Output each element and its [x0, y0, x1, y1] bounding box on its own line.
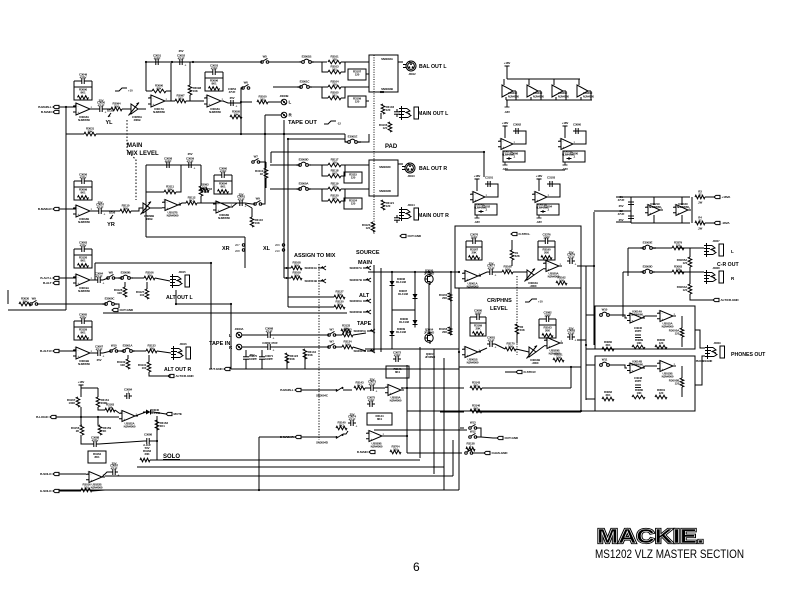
svg-text:MAIN OUT L: MAIN OUT L	[418, 111, 449, 117]
dotted connector line	[373, 55, 375, 235]
power -18V	[536, 215, 542, 224]
resistor R3107 block	[348, 69, 366, 80]
svg-text:120: 120	[659, 391, 664, 395]
wire	[341, 62, 345, 72]
resistor R3141 block	[386, 366, 409, 378]
label MAIN OUT L	[418, 111, 449, 117]
capacitor cap C3060	[573, 122, 582, 134]
label R3144	[375, 414, 384, 421]
svg-text:-18V: -18V	[474, 220, 480, 224]
svg-text:SN3005B: SN3005B	[353, 349, 366, 353]
wire	[241, 88, 243, 103]
wire	[65, 304, 67, 310]
wire	[335, 334, 342, 336]
capacitor C3053	[205, 63, 223, 78]
wire	[586, 314, 595, 316]
wire	[104, 210, 120, 212]
svg-text:J3010B: J3010B	[280, 94, 289, 98]
svg-text:47UF: 47UF	[111, 466, 118, 470]
wire	[495, 344, 505, 349]
op-amp U3015B	[657, 361, 676, 379]
resistor R3062	[602, 390, 614, 401]
svg-text:+: +	[272, 336, 274, 340]
capacitor C3076	[466, 232, 482, 247]
wire	[146, 282, 148, 289]
label 25V	[250, 353, 255, 357]
junction	[593, 265, 595, 267]
terminal B-MAIN	[41, 110, 59, 114]
svg-text:-: -	[537, 192, 538, 196]
wire	[628, 247, 644, 249]
svg-text:MAIN OUT R: MAIN OUT R	[418, 213, 449, 219]
label SN3003C	[379, 165, 392, 169]
power -18V	[504, 107, 510, 114]
jumper E3000Db	[641, 264, 656, 274]
resistor R3065A	[677, 257, 692, 267]
svg-text:47PF: 47PF	[368, 398, 375, 402]
svg-text:+: +	[574, 262, 576, 266]
wire matrix main bus	[368, 271, 459, 273]
resistor R3165s	[140, 458, 150, 462]
switch W12	[469, 430, 477, 439]
resistor R3090	[74, 87, 92, 100]
junction	[406, 387, 408, 389]
svg-text:+: +	[103, 212, 105, 216]
connector J3010A R	[236, 344, 242, 350]
wire	[690, 294, 713, 300]
svg-text:30PF: 30PF	[471, 235, 478, 239]
label 25V	[98, 200, 103, 204]
svg-text:E3000A: E3000A	[299, 181, 310, 185]
capacitor C3074	[348, 414, 357, 428]
terminal 208	[235, 249, 245, 253]
capacitor C3058	[164, 156, 173, 168]
svg-text:C3103: C3103	[547, 175, 556, 179]
svg-text:2K1: 2K1	[605, 393, 610, 397]
wire	[341, 164, 369, 166]
capacitor C3066	[503, 151, 525, 162]
vertical wire	[585, 266, 587, 400]
resistor R4	[695, 215, 705, 224]
potentiometer pot YR	[107, 211, 115, 229]
wire	[506, 100, 508, 107]
wire	[245, 203, 255, 204]
svg-text:+: +	[371, 437, 373, 441]
wire	[236, 102, 241, 104]
wire	[398, 163, 403, 165]
resistor R3120	[328, 193, 341, 202]
svg-text:47PV: 47PV	[80, 75, 87, 79]
switch SN3006A	[349, 299, 371, 303]
wire bus	[126, 133, 265, 135]
wire	[516, 334, 518, 343]
vertical wire	[622, 272, 624, 317]
svg-text:100PF: 100PF	[265, 357, 273, 361]
wire cr out L	[577, 265, 594, 267]
resistor R3101	[328, 54, 341, 63]
wire	[259, 436, 295, 438]
capacitor C3057	[96, 202, 105, 216]
label 25V	[239, 192, 244, 196]
capacitor C3054	[228, 100, 237, 108]
terminal +18VA	[714, 195, 731, 199]
junction	[585, 344, 587, 346]
svg-text:8K1: 8K1	[395, 370, 400, 374]
resistor R3094	[111, 101, 122, 110]
svg-text:+: +	[78, 212, 80, 216]
wire	[642, 316, 657, 318]
wire	[287, 354, 305, 369]
svg-text:+: +	[355, 424, 357, 428]
terminal B-MAIN-R	[38, 207, 59, 211]
wire	[678, 247, 704, 249]
svg-text:25V: 25V	[188, 152, 193, 156]
svg-text:120: 120	[675, 382, 680, 386]
wire	[642, 366, 657, 368]
bus vertical	[287, 139, 289, 307]
svg-text:TAPE: TAPE	[357, 321, 372, 327]
op-amp U3022B	[86, 472, 105, 490]
svg-text:+: +	[218, 208, 220, 212]
wire	[511, 260, 513, 266]
svg-text:C-R OUT: C-R OUT	[717, 262, 739, 268]
resistor R3103	[328, 64, 341, 73]
capacitor C3060	[214, 166, 232, 181]
wire	[284, 267, 291, 269]
terminal B-ALT-R	[40, 349, 59, 353]
svg-text:LEVEL: LEVEL	[490, 306, 508, 312]
svg-text:ALT OUT L: ALT OUT L	[166, 295, 194, 301]
label C3069	[262, 341, 278, 345]
diode D3039	[390, 327, 407, 339]
power -18V	[562, 162, 568, 171]
svg-text:SN3003C: SN3003C	[379, 165, 392, 169]
svg-text:47UF: 47UF	[96, 347, 103, 351]
svg-text:25V: 25V	[239, 192, 244, 196]
svg-text:10PF: 10PF	[543, 235, 550, 239]
label CR/PHNS	[487, 298, 512, 304]
svg-text:OUT-GND: OUT-GND	[120, 308, 134, 312]
vertical	[443, 358, 445, 490]
wire	[90, 108, 97, 110]
label MS1202 VLZ MASTER SECTION	[595, 547, 744, 561]
svg-text:-: -	[475, 192, 476, 196]
svg-text:100PF: 100PF	[249, 357, 257, 361]
svg-text:+: +	[475, 198, 477, 202]
terminal OUT-GND a	[400, 234, 422, 238]
svg-text:-18V: -18V	[502, 167, 508, 171]
svg-text:NJM4560: NJM4560	[533, 95, 545, 99]
wire	[586, 348, 595, 350]
jack jack J3016	[171, 342, 191, 360]
resistor R3063	[672, 264, 684, 273]
vertical wire	[240, 103, 242, 134]
wire	[695, 356, 705, 385]
svg-text:120: 120	[332, 82, 337, 86]
resistor R3060	[602, 340, 614, 351]
svg-text:100: 100	[140, 293, 145, 297]
junction	[258, 489, 260, 491]
resistor R3160	[439, 293, 452, 301]
connector XLR J3012	[403, 61, 416, 76]
svg-text:-: -	[209, 96, 210, 100]
wire	[653, 197, 655, 205]
terminal ALT/CR-GND	[713, 298, 739, 302]
wire	[59, 350, 76, 352]
svg-text:-3000: -3000	[532, 361, 539, 365]
phones driver block	[595, 356, 695, 411]
svg-text:OUT-GND: OUT-GND	[505, 436, 519, 440]
wire matrix bottom bus	[365, 348, 459, 350]
junction	[458, 351, 460, 353]
svg-text:561: 561	[178, 96, 183, 100]
wire	[59, 277, 76, 279]
switch SN3005A	[353, 329, 375, 333]
svg-text:-: -	[218, 202, 219, 206]
svg-text:120: 120	[676, 267, 681, 271]
wire	[262, 358, 287, 369]
resistor R3000A	[669, 328, 684, 337]
wire	[341, 87, 345, 98]
svg-text:-: -	[548, 261, 549, 265]
svg-text:SN3006B: SN3006B	[349, 310, 362, 314]
switch W15	[328, 340, 336, 349]
svg-text:W8: W8	[109, 271, 114, 275]
terminal G-SOLO	[40, 489, 59, 493]
terminal D-STR-R	[516, 370, 536, 374]
svg-text:+: +	[124, 417, 126, 421]
svg-text:+: +	[503, 145, 505, 149]
svg-text:J3012: J3012	[409, 72, 417, 76]
label 25V c3083	[569, 326, 574, 330]
junction	[264, 133, 266, 135]
wire	[586, 398, 595, 400]
svg-text:8K1: 8K1	[189, 198, 194, 202]
svg-text:ASSIGN TO MIX: ASSIGN TO MIX	[294, 253, 336, 259]
junction	[156, 440, 158, 442]
svg-text:J3009: J3009	[714, 341, 722, 345]
wire	[273, 86, 301, 88]
power +18V solo	[78, 380, 85, 388]
svg-text:120: 120	[683, 288, 688, 292]
resistor R3163s	[105, 402, 115, 411]
capacitor C3048	[634, 376, 643, 388]
wire	[609, 315, 627, 318]
wire	[392, 309, 415, 311]
svg-text:40K: 40K	[520, 328, 526, 332]
svg-text:SN3005A: SN3005A	[353, 329, 366, 333]
wire	[155, 278, 170, 281]
terminal -18VA	[714, 221, 730, 225]
label BAL OUT L	[419, 64, 447, 70]
op-amp U3023D	[577, 79, 595, 100]
svg-text:DL4148: DL4148	[399, 320, 409, 324]
svg-text:25V: 25V	[350, 412, 355, 416]
svg-text:+: +	[390, 391, 392, 395]
long bus wire	[59, 489, 459, 491]
resistor R3096	[205, 78, 223, 91]
label R3107	[353, 70, 362, 77]
svg-text:E3000D: E3000D	[299, 157, 309, 161]
svg-text:8K1: 8K1	[80, 91, 85, 95]
svg-text:+18V: +18V	[78, 380, 85, 384]
capacitor C3063	[74, 240, 92, 255]
switch SN3004C	[301, 387, 352, 398]
switch W14	[328, 328, 336, 337]
resistor R3144 block	[367, 413, 392, 425]
svg-text:NJM4560: NJM4560	[78, 118, 90, 122]
wire top L bus	[146, 62, 262, 91]
svg-text:NJM4560: NJM4560	[91, 485, 103, 489]
wire	[245, 204, 252, 208]
svg-text:25V: 25V	[179, 49, 184, 53]
capacitor C1	[618, 195, 634, 208]
junction	[382, 91, 384, 93]
svg-text:+: +	[78, 110, 80, 114]
wire	[366, 73, 369, 75]
wire	[152, 440, 157, 442]
svg-text:-: -	[78, 348, 79, 352]
wire	[241, 101, 252, 103]
svg-text:+: +	[78, 281, 80, 285]
svg-text:120: 120	[332, 184, 337, 188]
op-amp U3001A	[462, 271, 481, 289]
switch contacts assign rows	[286, 267, 288, 279]
resistor R3109 block	[348, 96, 366, 107]
jack jack J3007	[704, 239, 724, 257]
wire	[322, 87, 328, 98]
svg-text:120: 120	[366, 226, 371, 230]
vertical wire	[145, 165, 147, 237]
junction	[458, 271, 460, 273]
wire	[384, 435, 407, 437]
op-amp U3017A	[148, 95, 168, 114]
svg-text:+: +	[678, 211, 680, 215]
wire	[366, 100, 369, 102]
power +18V U3000C	[474, 174, 481, 182]
svg-text:DL4148: DL4148	[398, 292, 408, 296]
svg-text:NJM4560: NJM4560	[677, 205, 689, 209]
capacitor C3079	[567, 252, 576, 266]
svg-text:8K1: 8K1	[339, 423, 344, 427]
label C3054	[228, 87, 237, 100]
wire	[80, 407, 82, 417]
resistor R3094	[214, 181, 232, 194]
svg-text:MUTE: MUTE	[174, 412, 182, 416]
wire	[341, 165, 345, 176]
resistor R3000B	[669, 378, 684, 387]
op-amp U3014A	[627, 310, 645, 324]
label ALT OUT L	[166, 295, 194, 301]
svg-text:+18V: +18V	[504, 61, 511, 65]
svg-text:L: L	[289, 100, 292, 105]
connector SN3003 block	[369, 55, 398, 92]
resistor R3111	[164, 184, 176, 193]
wire headphone supply bottom rail	[631, 222, 690, 224]
svg-text:-: -	[390, 385, 391, 389]
label 25V	[370, 377, 375, 381]
svg-text:10PF: 10PF	[544, 313, 551, 317]
svg-text:120: 120	[332, 57, 337, 61]
wire	[96, 133, 126, 135]
resistor R3095	[230, 109, 242, 118]
wire	[66, 107, 84, 134]
wire	[580, 367, 582, 411]
terminal B-SOLO	[40, 472, 59, 476]
svg-text:PAD: PAD	[385, 144, 398, 150]
resistor R3110c	[255, 168, 268, 178]
resistor R3089	[632, 338, 645, 349]
svg-text:+: +	[632, 369, 634, 373]
wire	[534, 269, 543, 275]
svg-text:W11: W11	[602, 357, 608, 361]
logo MACKIE	[597, 525, 704, 548]
svg-text:120: 120	[386, 108, 391, 112]
svg-text:.2W: .2W	[698, 227, 703, 231]
wire top R bus	[146, 164, 201, 166]
wire headphone supply top rail	[631, 196, 690, 198]
label XR	[222, 246, 230, 252]
svg-text:-: -	[662, 361, 663, 365]
wire	[59, 490, 81, 492]
wire	[678, 271, 704, 273]
long wire gnd bus	[103, 312, 347, 314]
svg-text:209: 209	[275, 243, 280, 247]
vertical	[419, 347, 421, 458]
svg-text:+: +	[209, 102, 211, 106]
capacitor C3056	[74, 172, 92, 187]
switch W5	[261, 55, 269, 64]
wire	[122, 108, 131, 110]
capacitor C3061	[237, 194, 246, 208]
svg-text:SN3003A: SN3003A	[381, 57, 394, 61]
resistor R3080	[632, 388, 645, 399]
wire cr out R	[577, 339, 586, 341]
resistor R3133r	[146, 343, 157, 352]
wire jack ground	[176, 290, 231, 304]
vertical	[406, 365, 408, 453]
op-amp U3017B	[162, 200, 181, 218]
wire	[689, 248, 691, 257]
wire	[270, 164, 300, 166]
op-amp U3016C	[558, 139, 576, 157]
wire	[115, 410, 119, 413]
power +18V U3017C	[502, 121, 509, 129]
wire	[357, 134, 369, 142]
svg-text:+: +	[549, 344, 551, 348]
capacitor C3069	[265, 344, 274, 352]
op-amp U3018B2	[213, 201, 233, 220]
svg-text:SOLO: SOLO	[163, 454, 180, 460]
switch SN3004D	[301, 431, 348, 445]
svg-text:NJM4560: NJM4560	[78, 220, 90, 224]
svg-text:PHONES/GND: PHONES/GND	[696, 359, 713, 363]
svg-text:47UF: 47UF	[266, 329, 273, 333]
resistor R3109b	[291, 270, 302, 279]
svg-text:NJM4560: NJM4560	[631, 312, 643, 316]
resistor R3106b	[379, 122, 392, 132]
label PHONES-GND	[696, 359, 713, 363]
resistor R3146	[470, 403, 482, 412]
svg-text:+: +	[91, 478, 93, 482]
label SOLO underlined	[163, 454, 180, 460]
svg-text:1M: 1M	[108, 405, 113, 409]
switch W8	[107, 271, 115, 280]
svg-text:-: -	[153, 96, 154, 100]
svg-text:SN3006A: SN3006A	[349, 299, 362, 303]
label TAPE IN	[209, 341, 230, 347]
svg-text:CHAS-GND: CHAS-GND	[492, 451, 509, 455]
